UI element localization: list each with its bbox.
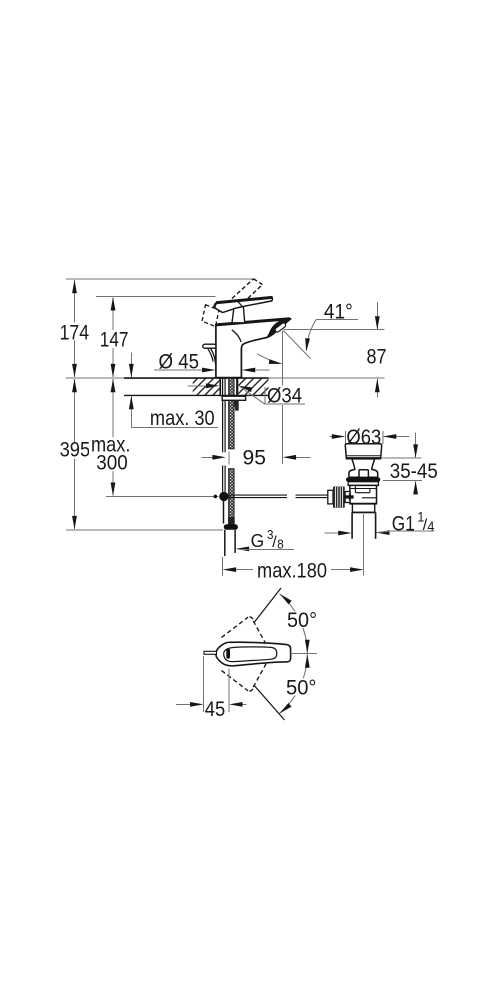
svg-text:max.180: max.180 [257,559,327,583]
extension line lower rotated [255,686,285,720]
svg-text:G1: G1 [392,512,415,535]
cartridge neck [232,307,245,323]
waste centerline extension [363,514,365,576]
label G1 1/4 waste thread [324,510,435,536]
50deg upper arc [278,592,318,653]
svg-text:50°: 50° [287,608,317,632]
hose end tube G3/8 [225,530,235,556]
pull rod tip below ball [223,501,225,524]
hose end ferrule [228,517,235,524]
handle lever left edge (heavy) [214,303,216,308]
aerator level reference line [284,329,385,331]
dimension 395 vertical [58,379,93,530]
dimension max.30 deck thickness [129,353,218,431]
waste seal ring [346,477,380,481]
aerator capsule [274,322,286,333]
waste lower band [352,504,374,513]
waste top cup [345,444,381,458]
mounting flange plate [222,396,245,400]
mounting nut steps [234,400,239,407]
dimension 174 vertical [58,280,91,378]
faucet body crease line [232,330,241,342]
reference line at hose end (395 bottom) [66,529,223,531]
41deg arc arrow left [257,354,283,366]
linkage knob small cap [328,490,333,504]
handle inner top-face line [224,647,277,662]
waste cone neck [349,459,378,477]
faucet body silhouette [216,319,291,378]
handle centerline right [291,653,318,655]
reference line at pull-rod linkage (max.300 bottom) [106,495,219,497]
svg-text:50°: 50° [286,675,317,699]
svg-text:87: 87 [367,345,387,369]
waste clamp bolt [345,495,353,498]
svg-text:35-45: 35-45 [390,459,438,483]
dashed rotated handle down 50 [222,662,268,691]
waste body [350,485,377,503]
handle lever top edge (heavy) [216,297,272,302]
dashed rotated handle up 50 [222,617,268,646]
dimension 147 vertical [98,297,130,377]
dimension max.180 horizontal [223,557,364,583]
reference line: max handle height [66,278,255,280]
linkage knurled knob [333,487,345,508]
dimension max.300 vertical [89,379,132,496]
svg-text:8: 8 [277,537,284,552]
dimension 35-45 clamping range [381,433,440,495]
hose end collar [224,524,238,530]
handle top view group [176,588,320,721]
vertical extension line from aerator [282,331,284,385]
svg-text:Ø34: Ø34 [267,383,302,407]
deck section band with hatch [124,378,269,395]
dimension diameter 63 [330,425,410,449]
svg-text:395: 395 [60,437,91,461]
faucet spout top edge (heavy) [216,319,290,325]
dashed handle lowered position [202,305,219,327]
waste tailpipe [352,512,376,538]
svg-text:174: 174 [60,320,90,344]
spray angle axis line 41deg [283,331,310,359]
label G 3/8 hose thread [236,527,294,551]
svg-text:95: 95 [243,445,267,469]
svg-text:300: 300 [96,451,128,475]
svg-text:G: G [251,531,265,551]
svg-text:max. 30: max. 30 [150,406,215,430]
handle lever crease [235,300,242,307]
braided supply hose upper [229,379,234,518]
dimension 45 handle [176,656,247,721]
dashed handle raised position lines [232,279,263,303]
dimension diameter 34 [188,383,305,407]
svg-text:4: 4 [427,519,434,534]
faucet spout nose dark tip [266,318,291,337]
waste tenon block [359,470,368,478]
pull rod ball joint [219,492,228,501]
handle indicator mark [226,649,230,659]
41deg arc arrow right [304,320,316,352]
adjuster bead on linkage [214,495,218,499]
pull rod below deck [223,379,226,492]
horizontal linkage rod [229,495,329,498]
pull-rod knob on body [203,344,216,364]
handle stub screw [204,651,217,654]
dimension diameter 45 [154,349,270,373]
waste clamp bracket [345,492,350,503]
extension line upper rotated [255,588,282,622]
waste body inner lines [350,486,376,498]
svg-text:41°: 41° [324,300,353,324]
solid handle outline [216,642,291,666]
svg-text:45: 45 [205,697,226,721]
reference line: closed handle height [96,295,216,297]
dimension 95 horizontal [202,370,311,470]
svg-text:147: 147 [100,328,129,352]
deck top line [66,377,385,379]
waste flange plate [348,482,378,486]
handle lever (side view) [214,297,272,313]
41deg label with underline [316,300,358,324]
shank outer tube through deck [219,379,221,397]
50deg lower arc [278,654,319,715]
svg-text:Ø 45: Ø 45 [159,349,200,373]
dimension 87 vertical [367,302,387,398]
